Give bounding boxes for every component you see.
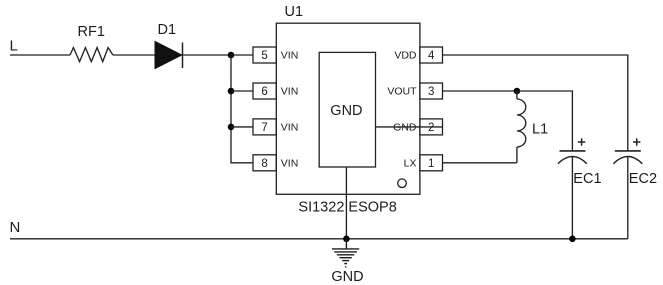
svg-text:L1: L1 [532, 122, 548, 138]
pin label VIN pin5 [281, 50, 299, 62]
op-amp U1 body (SI1322 ESOP8) [276, 23, 420, 194]
svg-text:U1: U1 [285, 4, 304, 20]
svg-text:VIN: VIN [281, 50, 299, 62]
wire stub to pin 5 [231, 54, 253, 56]
svg-text:VIN: VIN [281, 86, 299, 98]
svg-text:5: 5 [261, 50, 267, 62]
pin label VDD pin4 [394, 50, 417, 62]
pin 1 box [420, 155, 443, 171]
wire D1 to VIN bus [183, 54, 232, 56]
svg-text:4: 4 [428, 50, 435, 62]
pin 1 indicator circle [398, 179, 407, 188]
svg-text:VDD: VDD [394, 50, 417, 62]
svg-text:N: N [10, 219, 21, 236]
wire IC GND stem to N rail [345, 167, 347, 239]
wire inner GND to pin 2 [376, 126, 443, 128]
wire RF1 to D1 [113, 54, 155, 56]
pin label GND pin2 [393, 121, 417, 133]
wire L input [10, 54, 70, 56]
capacitor EC2 [613, 138, 657, 187]
svg-text:1: 1 [428, 158, 434, 170]
wire VOUT junction to EC1 [517, 91, 573, 151]
svg-text:L: L [10, 38, 18, 55]
pin label VIN pin8 [281, 157, 299, 169]
svg-text:2: 2 [428, 122, 434, 134]
svg-text:D1: D1 [158, 22, 177, 38]
svg-text:VIN: VIN [281, 157, 299, 169]
svg-text:GND: GND [331, 269, 363, 285]
wire VIN bus vertical [231, 55, 253, 163]
svg-text:RF1: RF1 [78, 24, 105, 40]
ground GND label [331, 269, 363, 285]
capacitor EC1 [558, 138, 602, 187]
wire stub to pin 6 [231, 90, 253, 92]
wire VOUT pin3 to junction [443, 90, 517, 92]
pin 7 box [253, 119, 276, 135]
node junction dot EC1 on N rail [569, 236, 576, 243]
node VIN junction dot top [228, 52, 235, 59]
svg-text:VOUT: VOUT [387, 86, 417, 98]
pin label VOUT pin3 [387, 86, 417, 98]
pin 2 box [420, 119, 443, 135]
svg-text:3: 3 [428, 86, 434, 98]
inner GND pad box [319, 52, 375, 167]
svg-text:8: 8 [261, 158, 267, 170]
resistor RF1 [70, 24, 113, 62]
svg-text:6: 6 [261, 86, 267, 98]
pin 4 box [420, 47, 443, 63]
wire N rail [10, 238, 628, 240]
U1 reference label [285, 4, 304, 20]
node L label [10, 38, 18, 55]
wire stub to pin 7 [231, 126, 253, 128]
pin 3 box [420, 83, 443, 99]
pin label LX pin1 [404, 157, 417, 169]
svg-text:VIN: VIN [281, 121, 299, 133]
svg-text:7: 7 [261, 122, 267, 134]
inductor L1 [517, 91, 548, 163]
svg-text:SI1322 ESOP8: SI1322 ESOP8 [298, 200, 396, 216]
svg-text:GND: GND [330, 103, 362, 119]
wire L1 to pin 1 LX [443, 162, 517, 164]
node junction dot pin7 [228, 124, 235, 131]
svg-text:EC1: EC1 [573, 171, 601, 187]
ground symbol [332, 239, 359, 267]
svg-text:LX: LX [404, 157, 417, 169]
pin 6 box [253, 83, 276, 99]
wire VDD rail pin4 to EC2 [443, 55, 628, 151]
wire EC1 to N rail [571, 157, 573, 239]
pin label VIN pin6 [281, 86, 299, 98]
node N label [10, 219, 21, 236]
node VOUT junction dot [514, 88, 521, 95]
node junction dot GND on N rail [343, 236, 350, 243]
part label SI1322 ESOP8 [298, 200, 396, 216]
node junction dot pin6 [228, 88, 235, 95]
pin 5 box [253, 47, 276, 63]
wire EC2 to N rail [627, 157, 629, 239]
svg-text:EC2: EC2 [629, 171, 657, 187]
pin label VIN pin7 [281, 121, 299, 133]
pin 8 box [253, 155, 276, 171]
diode D1 [155, 22, 183, 69]
